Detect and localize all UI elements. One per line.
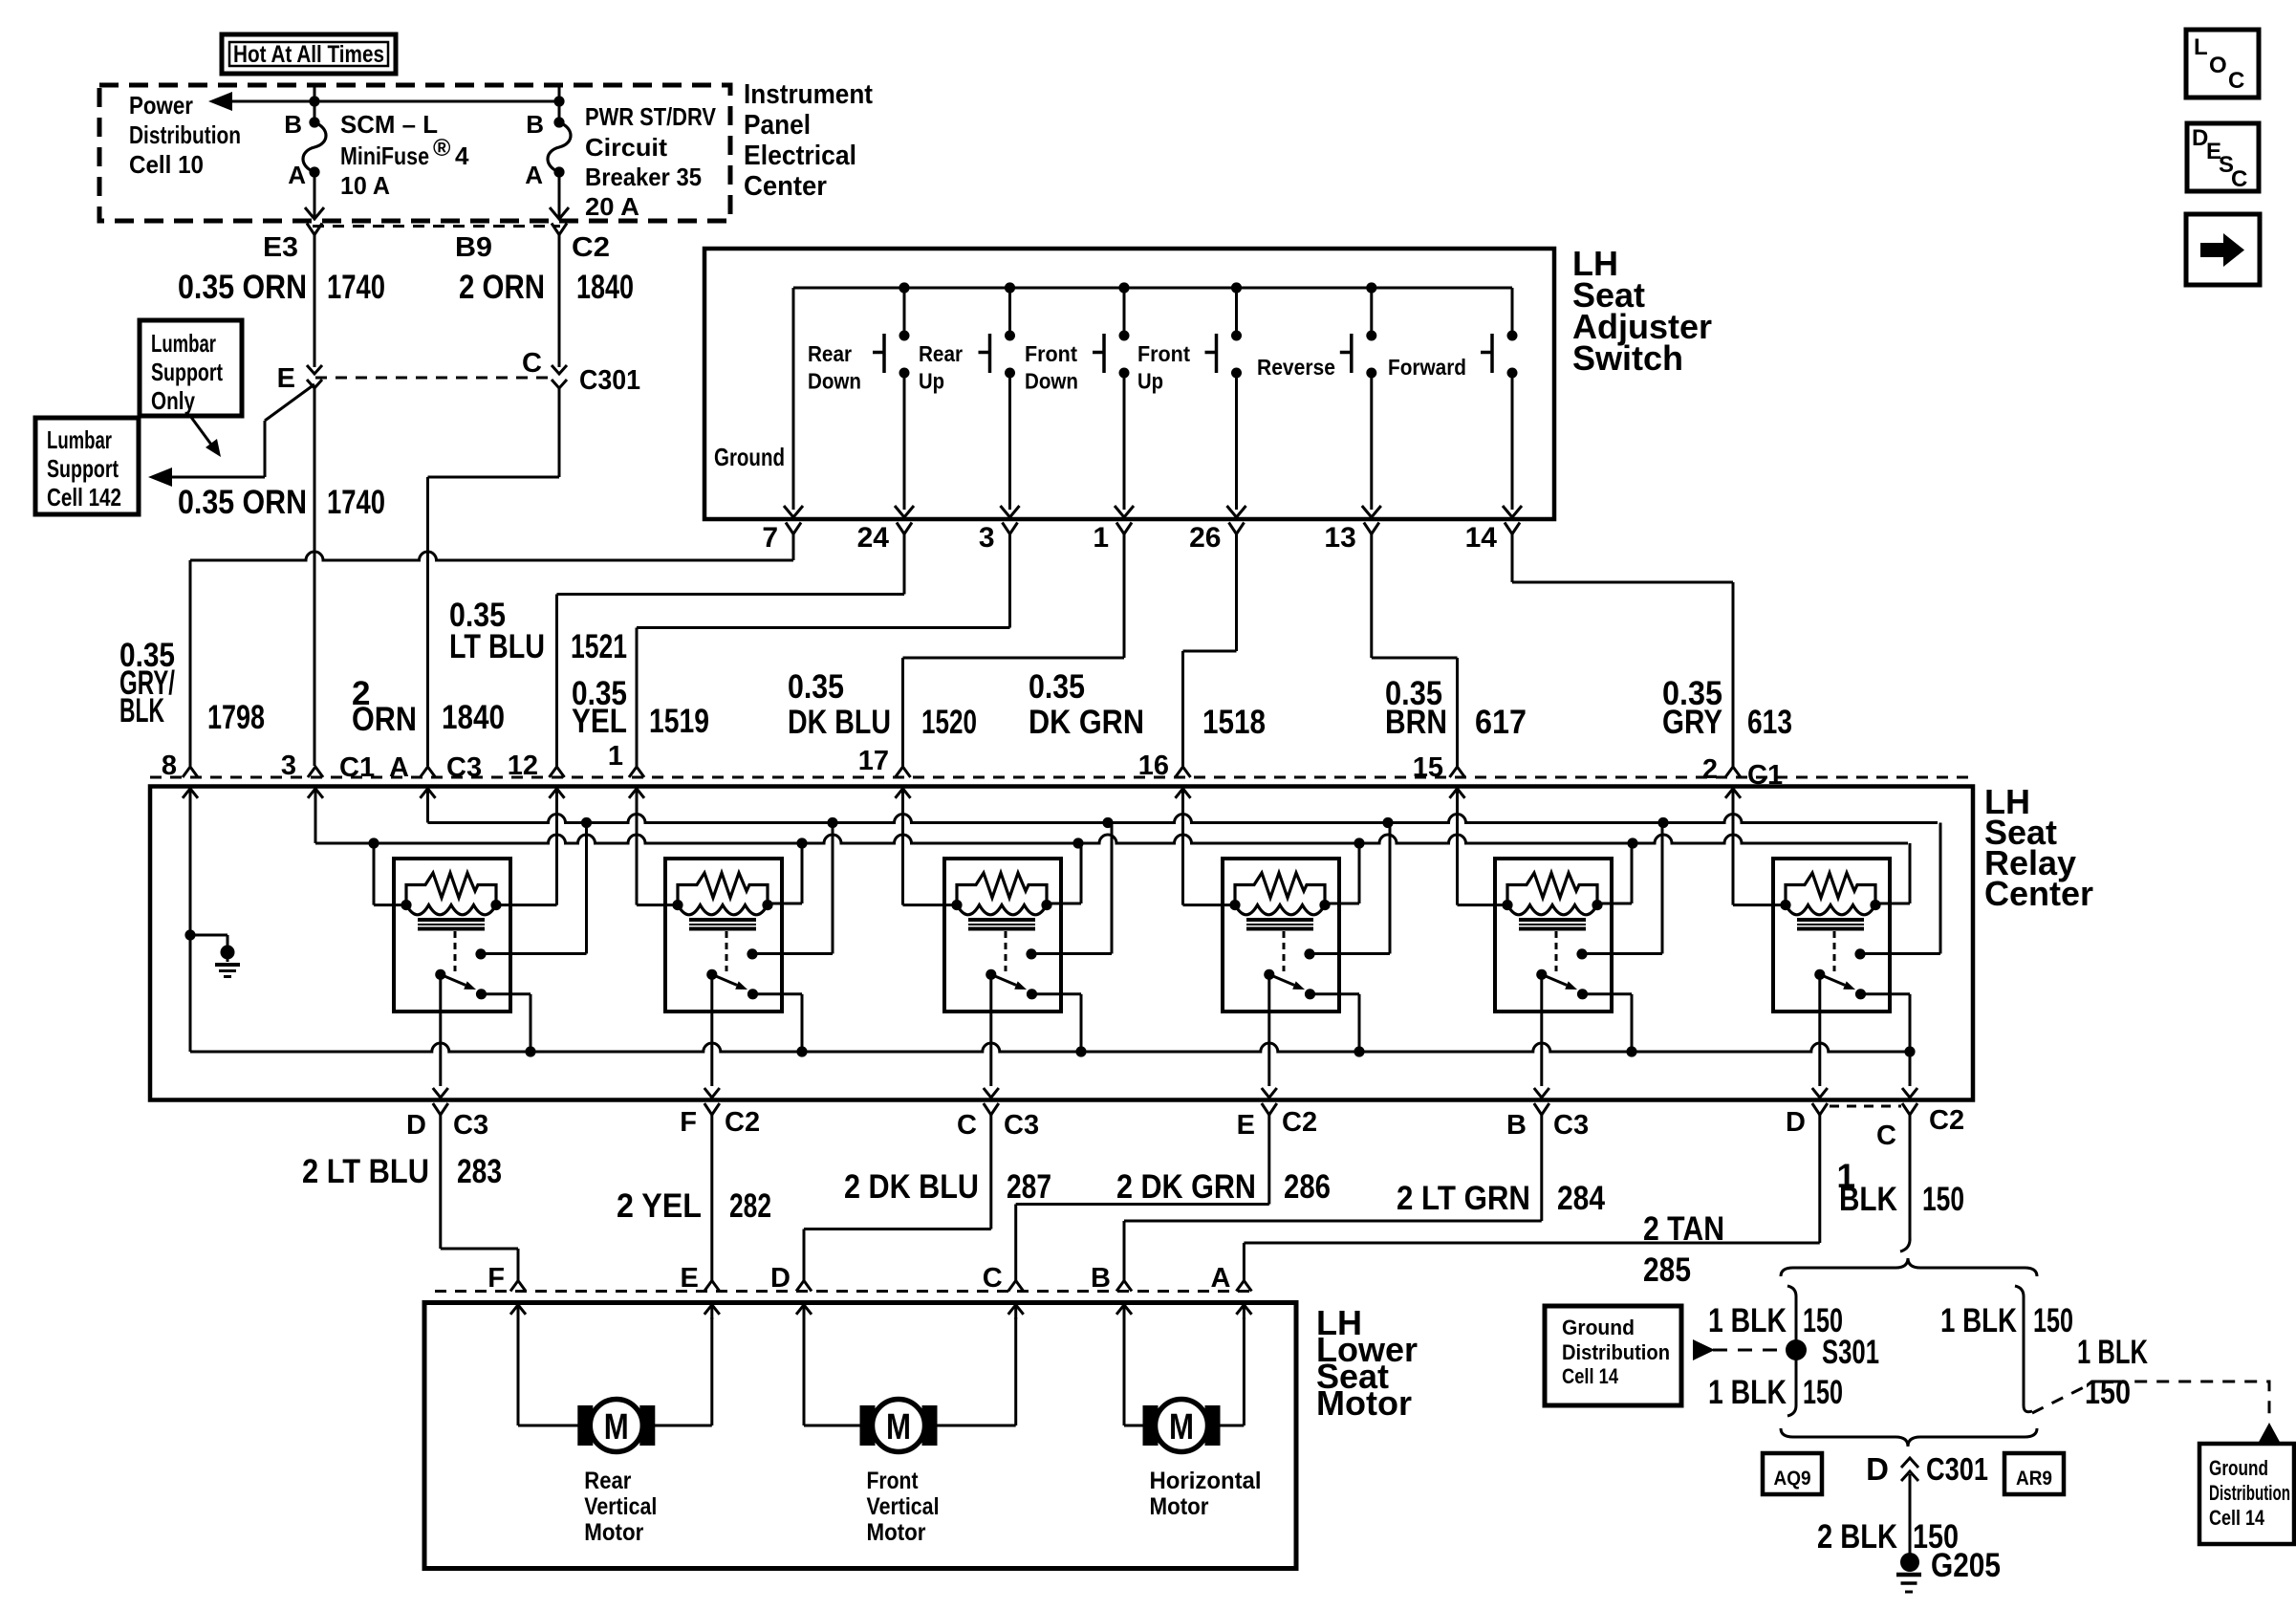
relay K3 common output: [989, 974, 992, 1086]
svg-text:C: C: [2231, 166, 2247, 192]
svg-text:0.35 ORN: 0.35 ORN: [178, 484, 307, 521]
LOC reference box: [2186, 30, 2259, 98]
relay K5 switch: [1536, 969, 1547, 980]
svg-text:Lumbar: Lumbar: [47, 425, 112, 454]
connector C upper: [552, 365, 567, 374]
relay K1 switch: [435, 969, 445, 980]
svg-text:1 BLK: 1 BLK: [1708, 1374, 1787, 1411]
relay center pin A C3: [421, 767, 436, 777]
relay K1 lower contact: [476, 989, 487, 999]
svg-text:C2: C2: [1282, 1107, 1317, 1138]
svg-text:Up: Up: [1137, 369, 1163, 394]
svg-text:Vertical: Vertical: [584, 1493, 657, 1520]
wire 2 LT BLU 283: [439, 1115, 442, 1249]
svg-text:286: 286: [1284, 1168, 1331, 1206]
relay center pin 2 C1: [1725, 767, 1741, 777]
svg-text:B9: B9: [455, 232, 492, 263]
svg-text:PWR ST/DRV: PWR ST/DRV: [585, 102, 717, 131]
switch pin 26: [1229, 523, 1245, 534]
svg-text:Lumbar: Lumbar: [151, 329, 216, 358]
svg-text:0.35: 0.35: [1029, 668, 1085, 706]
svg-text:O: O: [2209, 53, 2227, 78]
switch pin 1: [1116, 523, 1132, 534]
wire pin 8 ground feed: [189, 803, 192, 1052]
arrow to Lumbar Support Cell 142: [148, 468, 172, 487]
wire 2 LT GRN 284: [1540, 1115, 1543, 1221]
wire bus2 to relay4 coil-right: [1358, 843, 1361, 903]
svg-text:Distribution: Distribution: [2209, 1481, 2290, 1505]
svg-text:2 DK BLU: 2 DK BLU: [844, 1168, 979, 1206]
relay K4 switch: [1264, 969, 1274, 980]
relay K4 coil: [1235, 905, 1325, 915]
switch pin 13: [1364, 523, 1379, 534]
relay K3 coil: [957, 905, 1047, 915]
wire dashed 1 BLK 150 to Ground Distribution right: [2032, 1382, 2269, 1421]
svg-text:Support: Support: [151, 358, 223, 386]
svg-text:1798: 1798: [207, 699, 265, 736]
ground symbol (chassis): [221, 946, 235, 960]
relay K2 coil: [678, 905, 768, 915]
wire relay6 output to pin C: [1909, 1052, 1912, 1086]
svg-text:Only: Only: [151, 386, 195, 415]
relay K2 coil resistor: [678, 873, 768, 905]
relay coil feed bus2: [315, 835, 1908, 843]
wire 2 DK BLU 287: [989, 1115, 992, 1229]
svg-text:284: 284: [1557, 1180, 1605, 1217]
wire dashed from Ground Distribution: [1713, 1349, 1784, 1352]
relay K6 coil resistor: [1786, 873, 1875, 905]
svg-text:Circuit: Circuit: [585, 133, 667, 162]
svg-text:150: 150: [2085, 1374, 2131, 1411]
svg-text:617: 617: [1475, 704, 1527, 741]
svg-text:0.35: 0.35: [788, 668, 844, 706]
svg-text:24: 24: [857, 522, 890, 554]
svg-text:C: C: [2228, 68, 2244, 94]
motor connector pin B: [1116, 1281, 1132, 1292]
wire bus1 to relay3 upper contact: [1111, 823, 1114, 954]
svg-text:Front: Front: [1137, 341, 1190, 366]
wire control pin to relay5 coil: [1456, 803, 1459, 905]
bus drop to Forward contact: [1511, 288, 1514, 334]
relay K2 lower contact: [747, 989, 758, 999]
switch actuator mark: [1490, 334, 1494, 373]
svg-text:YEL: YEL: [572, 703, 627, 740]
wire 2 TAN 285: [1818, 1115, 1821, 1243]
wire relay2 lower contact to ground bus: [753, 992, 803, 995]
svg-text:1520: 1520: [921, 704, 977, 741]
motor connector pin C: [1008, 1281, 1024, 1292]
svg-text:Horizontal: Horizontal: [1150, 1468, 1262, 1494]
svg-text:Motor: Motor: [867, 1519, 926, 1546]
switch contact Rear Up: [1008, 288, 1011, 334]
wire break hook: [1900, 1237, 1910, 1251]
box Ground Distribution Cell 14 left: [1545, 1306, 1681, 1405]
relay center pin 17: [896, 767, 911, 777]
relay K3 core: [968, 918, 1035, 922]
wire relay3 lower contact to ground bus: [1032, 992, 1082, 995]
relay K2 switch: [706, 969, 717, 980]
relay center pin E C2: [1262, 1103, 1277, 1115]
svg-text:Cell 10: Cell 10: [129, 150, 204, 179]
svg-text:Ground: Ground: [1562, 1316, 1635, 1339]
svg-text:A: A: [288, 161, 306, 189]
svg-text:C1: C1: [339, 752, 375, 783]
svg-text:C301: C301: [579, 365, 640, 396]
svg-text:C3: C3: [1553, 1110, 1589, 1141]
relay center pin B C3: [1534, 1103, 1549, 1115]
svg-text:2 DK GRN: 2 DK GRN: [1116, 1168, 1256, 1206]
svg-text:Instrument: Instrument: [744, 79, 873, 110]
relay center pin C C3: [984, 1103, 999, 1115]
svg-text:150: 150: [1803, 1374, 1843, 1411]
wire 0.35 YEL 1519 switch pin3 to relay pin1: [1008, 534, 1011, 628]
svg-text:LT BLU: LT BLU: [449, 628, 545, 665]
wire control pin to relay6 coil: [1732, 803, 1735, 905]
connector C301 D: [1901, 1458, 1918, 1468]
splice S301: [1786, 1339, 1807, 1360]
relay K5 coil resistor: [1507, 873, 1597, 905]
motor Rear Vertical: [517, 1317, 520, 1425]
svg-text:E: E: [680, 1263, 698, 1294]
switch contact Front Up: [1235, 288, 1238, 334]
wire bus1 to relay4 upper contact: [1389, 823, 1392, 954]
wire 0.35 GRY/BLK 1798 switch pin7 to relay pin8: [792, 534, 795, 561]
ground G205: [1900, 1553, 1919, 1572]
relay center pin D C3: [433, 1103, 448, 1115]
svg-text:Vertical: Vertical: [867, 1493, 940, 1520]
connector B9 C2: [552, 224, 567, 235]
connector C301 E / C: [315, 377, 552, 380]
wire 0.35 DK BLU 1520 switch pin1 to relay pin17: [1123, 534, 1126, 659]
svg-text:14: 14: [1465, 522, 1498, 554]
svg-text:AR9: AR9: [2016, 1468, 2052, 1490]
svg-text:SCM – L: SCM – L: [340, 110, 438, 139]
relay center pin C C2: [1902, 1103, 1917, 1115]
relay K2 box: [665, 859, 782, 1012]
svg-text:BLK: BLK: [1839, 1181, 1897, 1218]
relay K3 upper contact: [1026, 948, 1036, 959]
switch contact Rear Down: [903, 288, 906, 334]
svg-text:8: 8: [162, 751, 177, 781]
wire 2 ORN 1840: [558, 235, 561, 368]
arrow breaker output: [550, 207, 569, 219]
relay K1 coil: [406, 905, 496, 915]
relay K3 box: [944, 859, 1061, 1012]
svg-text:2 ORN: 2 ORN: [459, 269, 545, 306]
svg-text:MiniFuse: MiniFuse: [340, 141, 429, 170]
svg-text:Front: Front: [867, 1468, 920, 1494]
svg-text:D: D: [1786, 1107, 1806, 1138]
svg-text:B: B: [284, 110, 302, 139]
wire bus1 to relay1 upper contact: [585, 823, 588, 954]
wire 0.35 BRN 617 switch pin13 to relay pin15: [1370, 534, 1373, 659]
relay center connector dashed line: [150, 776, 1973, 779]
wire pin12 to relay1 coil: [555, 803, 558, 905]
svg-text:Forward: Forward: [1388, 355, 1466, 380]
svg-text:A: A: [525, 161, 543, 189]
svg-text:E3: E3: [263, 232, 298, 263]
wire relay1 lower contact to ground bus: [482, 992, 531, 995]
motor connector dashed line: [435, 1290, 1252, 1293]
svg-text:F: F: [487, 1263, 505, 1294]
svg-text:E: E: [1237, 1110, 1255, 1141]
svg-text:Support: Support: [47, 454, 119, 483]
box Ground Distribution Cell 14 right: [2199, 1444, 2294, 1544]
relay K4 armature dashed link: [1283, 931, 1286, 971]
svg-text:Switch: Switch: [1572, 338, 1683, 378]
svg-text:D: D: [406, 1110, 426, 1141]
wire relay6 lower contact to ground bus: [1861, 992, 1911, 995]
svg-text:DK GRN: DK GRN: [1029, 704, 1144, 741]
svg-text:C3: C3: [453, 1110, 488, 1141]
svg-text:BLK: BLK: [119, 692, 164, 729]
switch actuator mark: [1102, 334, 1106, 373]
svg-text:C2: C2: [1929, 1105, 1964, 1136]
relay K4 coil resistor: [1235, 873, 1325, 905]
svg-text:15: 15: [1413, 752, 1443, 783]
svg-text:Rear: Rear: [808, 341, 852, 366]
relay K5 lower contact: [1577, 989, 1588, 999]
svg-text:0.35 ORN: 0.35 ORN: [178, 269, 307, 306]
motor connector pin F: [510, 1281, 526, 1292]
svg-text:M: M: [604, 1407, 629, 1447]
svg-text:1 BLK: 1 BLK: [1940, 1302, 2017, 1339]
svg-text:1840: 1840: [576, 269, 634, 306]
relay K6 coil: [1786, 905, 1875, 915]
switch ground wire pin 7: [792, 288, 795, 510]
svg-text:ORN: ORN: [352, 701, 417, 738]
relay K5 common output: [1540, 974, 1543, 1086]
relay center pin 1: [629, 767, 644, 777]
wire bus1 to relay2 upper contact: [832, 823, 834, 954]
label Hot At All Times: [222, 34, 396, 74]
wire bus2 to relay6 coil-right: [1909, 843, 1912, 903]
svg-text:Electrical: Electrical: [744, 141, 856, 171]
svg-text:Down: Down: [1025, 369, 1078, 394]
svg-text:®: ®: [433, 135, 451, 162]
svg-text:Down: Down: [808, 369, 861, 394]
svg-text:613: 613: [1747, 704, 1792, 741]
box LH Lower Seat Motor: [424, 1303, 1296, 1569]
switch pin 3: [1003, 523, 1018, 534]
relay K4 core: [1246, 918, 1313, 922]
wire 1 BLK 150 splice branch right: [2015, 1286, 2032, 1412]
relay K2 core: [689, 918, 756, 922]
switch pin 24: [897, 523, 912, 534]
svg-text:1: 1: [608, 741, 623, 772]
relay K1 upper contact: [475, 948, 486, 959]
arrow fuse output: [305, 207, 324, 219]
wire bus2 to relay2 coil-right: [801, 843, 804, 903]
relay ground bus: [190, 1043, 1910, 1052]
svg-text:M: M: [1169, 1407, 1194, 1447]
wire 0.35 GRY 613 switch pin14 to relay pin2: [1511, 534, 1514, 583]
connector E3: [307, 224, 322, 235]
switch actuator mark: [988, 334, 992, 373]
relay coil feed bus1: [428, 815, 1939, 823]
Instrument Panel Electrical Center dashed box: [99, 85, 730, 221]
svg-text:150: 150: [1922, 1181, 1964, 1218]
relay K6 core: [1797, 918, 1864, 922]
svg-text:C: C: [1876, 1120, 1896, 1151]
wire 0.35 ORN 1740 lower: [314, 386, 316, 766]
svg-text:Motor: Motor: [1150, 1493, 1209, 1520]
wire pin 3 to bus2: [314, 803, 317, 843]
svg-text:S301: S301: [1822, 1334, 1879, 1371]
switch contact Forward: [1507, 331, 1518, 341]
svg-text:Motor: Motor: [584, 1519, 643, 1546]
wire 2 DK GRN 286: [1267, 1115, 1270, 1205]
svg-text:2 LT GRN: 2 LT GRN: [1397, 1180, 1530, 1217]
wire to Power Distribution: [212, 100, 559, 103]
svg-text:1840: 1840: [442, 699, 505, 736]
relay K5 core: [1519, 918, 1586, 922]
box Lumbar Support Only: [140, 320, 242, 416]
svg-text:C301: C301: [1926, 1451, 1988, 1487]
svg-text:Ground: Ground: [2209, 1456, 2268, 1480]
relay K5 armature dashed link: [1555, 931, 1558, 971]
relay center pin 3 C1: [308, 767, 323, 777]
svg-text:285: 285: [1643, 1251, 1691, 1289]
relay K6 lower contact: [1855, 989, 1866, 999]
wire bus hot feed: [314, 85, 316, 122]
svg-text:20 A: 20 A: [585, 192, 639, 221]
wire 0.35 ORN 1740: [314, 235, 316, 368]
relay K1 box: [394, 859, 510, 1012]
relay center pin 12: [550, 767, 565, 777]
relay K3 armature dashed link: [1005, 931, 1007, 971]
relay K5 coil: [1507, 905, 1597, 915]
svg-text:Reverse: Reverse: [1257, 355, 1335, 380]
svg-text:Distribution: Distribution: [129, 120, 241, 149]
svg-text:17: 17: [858, 746, 889, 776]
DESC reference box: [2187, 123, 2259, 191]
svg-text:DK BLU: DK BLU: [788, 704, 891, 741]
switch power bus: [793, 287, 1512, 290]
switch pin 7: [786, 523, 801, 534]
switch pin 14: [1505, 523, 1520, 534]
svg-text:2 LT BLU: 2 LT BLU: [302, 1153, 429, 1190]
svg-text:3: 3: [979, 522, 995, 554]
svg-text:C3: C3: [1004, 1110, 1039, 1141]
relay K3 lower contact: [1027, 989, 1037, 999]
svg-text:3: 3: [281, 751, 296, 781]
relay K1 common output: [439, 974, 442, 1086]
relay K3 switch: [986, 969, 996, 980]
wire 1 BLK 150 splice branch left: [1787, 1286, 1796, 1416]
relay center pin 8: [183, 767, 198, 777]
svg-text:Ground: Ground: [714, 443, 785, 471]
relay K6 upper contact: [1854, 948, 1865, 959]
relay K1 armature dashed link: [454, 931, 457, 971]
svg-text:A: A: [1210, 1263, 1230, 1294]
relay K5 box: [1495, 859, 1612, 1012]
switch contact Reverse: [1370, 288, 1373, 334]
switch actuator mark: [882, 334, 886, 373]
relay K6 armature dashed link: [1833, 931, 1836, 971]
svg-text:Motor: Motor: [1316, 1383, 1412, 1423]
svg-text:1 BLK: 1 BLK: [2077, 1334, 2148, 1371]
svg-text:B: B: [526, 110, 544, 139]
wire relay5 lower contact to ground bus: [1583, 992, 1633, 995]
brace upper: [1781, 1258, 2037, 1276]
relay K6 box: [1773, 859, 1890, 1012]
switch contact Front Down: [1123, 288, 1126, 334]
svg-text:Cell 14: Cell 14: [1562, 1364, 1619, 1388]
svg-text:C2: C2: [725, 1107, 760, 1138]
svg-text:C3: C3: [446, 752, 482, 783]
relay K2 armature dashed link: [726, 931, 728, 971]
relay K3 coil resistor: [957, 873, 1047, 905]
motor connector pin D: [796, 1281, 812, 1292]
svg-text:2 BLK: 2 BLK: [1817, 1518, 1897, 1556]
svg-text:F: F: [680, 1107, 697, 1138]
wire lumbar tap: [265, 384, 314, 421]
svg-text:AQ9: AQ9: [1774, 1468, 1811, 1490]
wire control pin to relay2 coil: [636, 803, 639, 905]
ground tap: [190, 934, 227, 937]
svg-text:283: 283: [457, 1153, 502, 1190]
relay center pin D: [1812, 1103, 1828, 1115]
svg-text:M: M: [886, 1407, 911, 1447]
relay K4 lower contact: [1305, 989, 1315, 999]
connector C lower: [552, 380, 567, 388]
svg-text:150: 150: [2033, 1302, 2073, 1339]
svg-text:13: 13: [1324, 522, 1355, 554]
svg-text:BRN: BRN: [1385, 704, 1447, 741]
brace lower: [1781, 1428, 2037, 1447]
relay center pin F C2: [704, 1103, 720, 1115]
svg-text:Front: Front: [1025, 341, 1077, 366]
wire 0.35 LT BLU 1521 switch pin24 to relay pin12: [903, 534, 906, 595]
svg-text:1740: 1740: [327, 269, 385, 306]
wire bus2 to relay5 coil-right: [1631, 843, 1634, 903]
svg-text:Rear: Rear: [919, 341, 963, 366]
wire relay4 lower contact to ground bus: [1310, 992, 1360, 995]
svg-text:D: D: [1866, 1451, 1889, 1487]
motor Horizontal Motor: [1123, 1317, 1126, 1425]
wire bus1 to relay6 upper contact: [1939, 823, 1942, 954]
svg-text:4: 4: [455, 141, 469, 170]
svg-text:1: 1: [1093, 522, 1109, 554]
svg-text:GRY: GRY: [1662, 704, 1722, 741]
wire bus1 to relay5 upper contact: [1661, 823, 1664, 954]
relay K6 switch: [1814, 969, 1825, 980]
wire 2 YEL 282: [710, 1115, 713, 1282]
svg-text:G205: G205: [1931, 1547, 2001, 1584]
relay K2 common output: [710, 974, 713, 1086]
motor connector pin E: [704, 1281, 720, 1292]
svg-text:282: 282: [729, 1187, 771, 1225]
svg-text:Hot At All Times: Hot At All Times: [233, 41, 384, 68]
svg-text:2 YEL: 2 YEL: [617, 1187, 702, 1225]
box LH Seat Relay Center: [150, 787, 1973, 1100]
connector E upper: [307, 365, 322, 374]
svg-text:7: 7: [762, 522, 778, 554]
relay center pin 16: [1176, 767, 1191, 777]
wire 1 BLK 150: [1909, 1115, 1912, 1241]
svg-text:1518: 1518: [1202, 704, 1266, 741]
svg-text:D: D: [770, 1263, 791, 1294]
svg-text:12: 12: [508, 751, 538, 781]
svg-text:C1: C1: [1747, 760, 1783, 791]
svg-text:Panel: Panel: [744, 110, 811, 141]
svg-text:Center: Center: [1984, 874, 2093, 913]
fuse SCM-L MiniFuse 4 10A: [309, 117, 319, 127]
svg-text:Up: Up: [919, 369, 944, 394]
svg-text:Breaker 35: Breaker 35: [585, 163, 702, 191]
relay center pin 15: [1450, 767, 1465, 777]
